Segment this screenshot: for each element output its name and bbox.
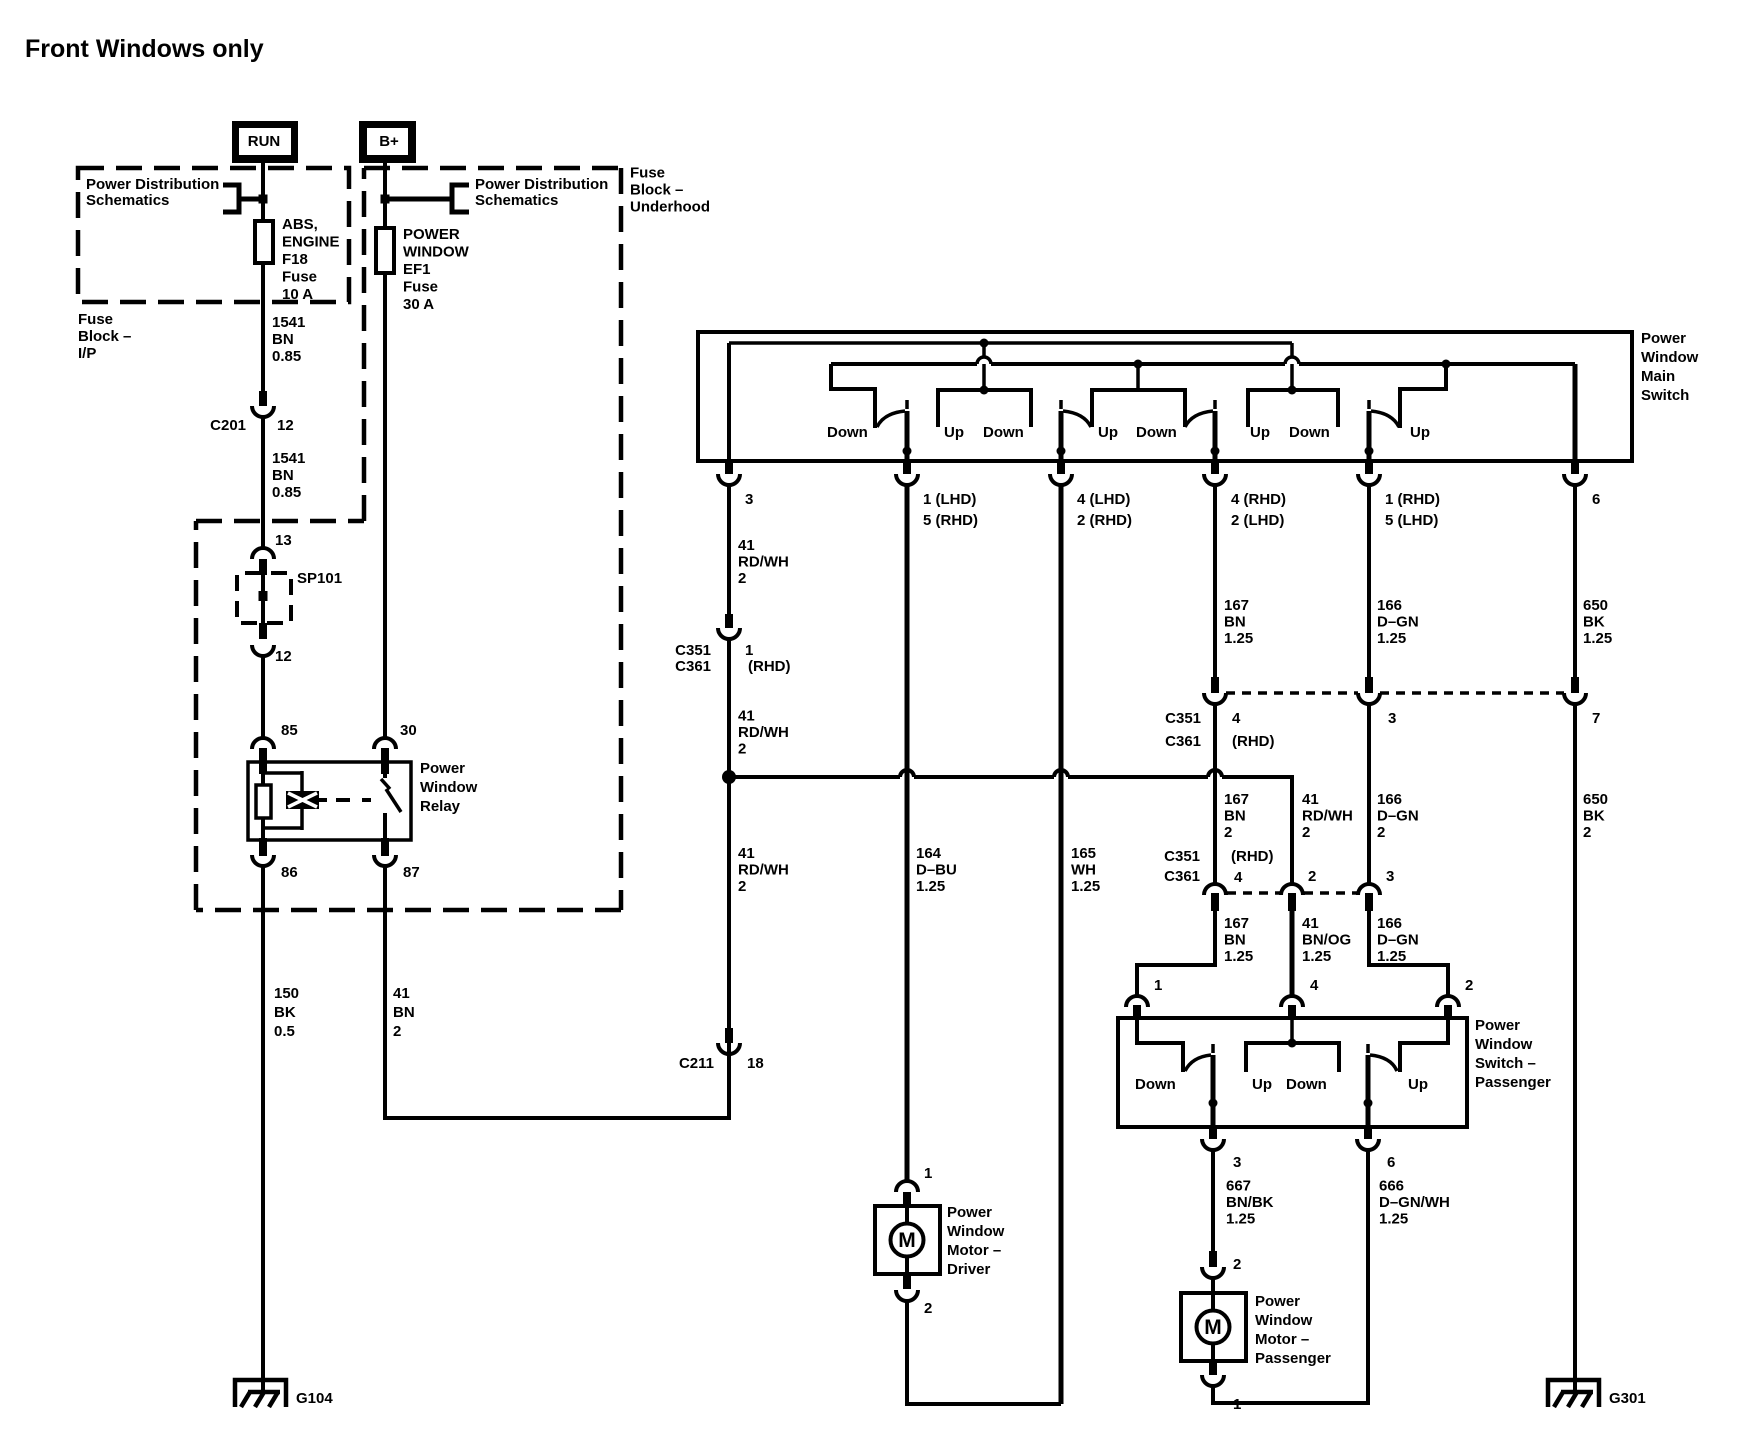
relay coil resistor element <box>261 762 265 785</box>
svg-text:Power: Power <box>420 760 465 777</box>
svg-text:Power Distribution: Power Distribution <box>86 176 219 193</box>
svg-text:164: 164 <box>916 845 942 862</box>
svg-text:2: 2 <box>1233 1256 1241 1273</box>
svg-text:Switch: Switch <box>1641 387 1689 404</box>
svg-text:0.5: 0.5 <box>274 1023 295 1040</box>
svg-text:POWER: POWER <box>403 226 460 243</box>
svg-text:Driver: Driver <box>947 1261 991 1278</box>
svg-text:2: 2 <box>738 878 746 895</box>
svg-text:1.25: 1.25 <box>1377 630 1406 647</box>
relay coil branch wires <box>263 771 302 775</box>
svg-text:1.25: 1.25 <box>1379 1211 1408 1228</box>
wire B+ feed <box>383 155 387 228</box>
svg-text:2: 2 <box>1224 824 1232 841</box>
svg-text:41: 41 <box>1302 915 1319 932</box>
connector C201 pin 12 <box>259 391 267 406</box>
svg-text:BK: BK <box>1583 614 1605 631</box>
svg-text:667: 667 <box>1226 1178 1251 1195</box>
svg-text:BN: BN <box>1224 614 1246 631</box>
switch sw4 wiper arm <box>1367 400 1371 409</box>
svg-text:0.85: 0.85 <box>272 348 301 365</box>
svg-text:SP101: SP101 <box>297 570 342 587</box>
svg-text:BN: BN <box>272 331 294 348</box>
svg-text:41: 41 <box>1302 791 1319 808</box>
svg-text:2: 2 <box>393 1023 401 1040</box>
svg-text:Motor –: Motor – <box>1255 1331 1309 1348</box>
node junction on RUN wire <box>259 195 268 204</box>
svg-text:Up: Up <box>1252 1076 1272 1093</box>
svg-text:4 (LHD): 4 (LHD) <box>1077 491 1130 508</box>
svg-text:Up: Up <box>944 424 964 441</box>
node trunk junction <box>722 770 736 784</box>
svg-text:RUN: RUN <box>248 133 281 150</box>
svg-text:BN: BN <box>272 467 294 484</box>
svg-text:650: 650 <box>1583 597 1608 614</box>
svg-text:D–GN/WH: D–GN/WH <box>1379 1194 1450 1211</box>
svg-text:Down: Down <box>1289 424 1330 441</box>
svg-text:WH: WH <box>1071 862 1096 879</box>
svg-text:12: 12 <box>277 417 294 434</box>
wire sw2 pivot riser <box>1059 411 1064 461</box>
node junction on B+ wire <box>381 195 390 204</box>
wire 41 RD/WH terminal 3 down <box>727 485 731 614</box>
svg-text:Down: Down <box>827 424 868 441</box>
wire main switch bus A <box>729 341 1292 345</box>
svg-text:Window: Window <box>947 1223 1005 1240</box>
wire 166 D-GN mid <box>1367 704 1371 884</box>
svg-text:Fuse: Fuse <box>282 269 317 286</box>
wire driver motor return <box>907 1301 1061 1404</box>
svg-text:6: 6 <box>1592 491 1600 508</box>
fuse block Underhood outline <box>196 168 621 910</box>
wire bracket to RUN wire <box>239 197 263 202</box>
connector main switch terminal x=1369 <box>1365 461 1373 474</box>
svg-text:Relay: Relay <box>420 798 461 815</box>
svg-text:BK: BK <box>274 1004 296 1021</box>
wire jog to C211 <box>383 1116 729 1120</box>
svg-text:(RHD): (RHD) <box>748 658 791 675</box>
svg-text:1: 1 <box>1233 1396 1241 1413</box>
svg-text:D–GN: D–GN <box>1377 614 1419 631</box>
svg-text:Window: Window <box>1641 349 1699 366</box>
svg-text:Power: Power <box>1641 330 1686 347</box>
wire 650 BK to G301 <box>1573 1380 1577 1392</box>
wire 650 BK lower <box>1573 704 1577 1381</box>
wire sw1 down contact feed <box>831 364 875 428</box>
connector relay pin 87 <box>381 838 389 856</box>
wire sw3 pivot riser <box>1213 411 1218 461</box>
svg-text:C211: C211 <box>679 1055 714 1072</box>
svg-text:Switch –: Switch – <box>1475 1055 1536 1072</box>
off-page bracket (right) <box>452 185 469 212</box>
svg-text:1541: 1541 <box>272 314 305 331</box>
switch Power Window Switch Passenger box <box>1118 1018 1467 1127</box>
off-page bracket (left) <box>223 185 239 212</box>
svg-text:Schematics: Schematics <box>86 192 169 209</box>
svg-text:12: 12 <box>275 648 292 665</box>
svg-text:C361: C361 <box>1164 868 1200 885</box>
connector driver motor pin 2 <box>903 1274 911 1289</box>
node bus B junctions <box>1134 360 1143 369</box>
svg-text:D–GN: D–GN <box>1377 808 1419 825</box>
connector terminal 12 <box>252 645 274 656</box>
svg-text:1.25: 1.25 <box>1224 630 1253 647</box>
svg-text:Underhood: Underhood <box>630 199 710 216</box>
svg-text:166: 166 <box>1377 915 1402 932</box>
svg-text:166: 166 <box>1377 597 1402 614</box>
svg-text:Fuse: Fuse <box>630 165 665 182</box>
svg-text:1: 1 <box>1154 977 1162 994</box>
relay Power Window Relay box <box>248 762 411 840</box>
svg-text:C351: C351 <box>1165 710 1201 727</box>
svg-text:Up: Up <box>1408 1076 1428 1093</box>
wire 150 BK to G104 <box>261 866 265 1392</box>
svg-text:C201: C201 <box>210 417 246 434</box>
wire bus A end feed to bracket3 <box>1290 343 1294 358</box>
svg-text:4: 4 <box>1310 977 1319 994</box>
wire C211 up to junction <box>727 789 731 1028</box>
svg-text:RD/WH: RD/WH <box>738 862 789 879</box>
svg-text:1.25: 1.25 <box>1583 630 1612 647</box>
wire sw4 up contact feed <box>1400 364 1446 428</box>
svg-text:C351: C351 <box>1164 848 1200 865</box>
connector passenger motor pin 1 <box>1209 1361 1217 1375</box>
svg-text:D–BU: D–BU <box>916 862 957 879</box>
switch sw1 wiper arm <box>877 411 905 427</box>
ground G301 <box>1548 1380 1599 1407</box>
wire dashed connector link row2 <box>1227 891 1280 895</box>
connector passenger motor pin 2 <box>1209 1251 1217 1267</box>
svg-text:166: 166 <box>1377 791 1402 808</box>
svg-text:150: 150 <box>274 985 299 1002</box>
svg-text:Window: Window <box>1475 1036 1533 1053</box>
svg-text:Block –: Block – <box>78 328 131 345</box>
switch sw3 wiper arm <box>1185 411 1213 427</box>
switch psw1 wiper arm <box>1185 1055 1211 1071</box>
wire bracket to B+ wire <box>385 197 452 202</box>
wire 666 D-GN/WH <box>1213 1150 1368 1403</box>
svg-text:1.25: 1.25 <box>1302 948 1331 965</box>
node bus A junction to first bracket <box>980 339 989 348</box>
wire 167 BN mid <box>1213 704 1217 884</box>
svg-text:Motor –: Motor – <box>947 1242 1001 1259</box>
svg-text:30 A: 30 A <box>403 296 434 313</box>
relay contact arm <box>383 762 387 778</box>
svg-text:2: 2 <box>738 570 746 587</box>
wire bracket2 common <box>1136 364 1140 390</box>
wire bracket3 common <box>1248 390 1338 427</box>
wire psw1 pivot riser <box>1211 1055 1216 1127</box>
svg-text:BN/OG: BN/OG <box>1302 932 1351 949</box>
wire EF1 to relay 30 <box>383 273 387 739</box>
svg-text:1: 1 <box>924 1165 932 1182</box>
wire 167 BN upper <box>1213 485 1217 678</box>
svg-text:Down: Down <box>1286 1076 1327 1093</box>
svg-text:Schematics: Schematics <box>475 192 558 209</box>
connector main switch terminal x=1215 <box>1211 461 1219 474</box>
wire sw4 pivot riser <box>1367 411 1372 461</box>
connector C211 pin 18 <box>725 1028 733 1043</box>
svg-text:167: 167 <box>1224 597 1249 614</box>
connector passenger switch pin 3 <box>1209 1127 1217 1139</box>
wire terminal 3 branch below trunk <box>727 777 731 1028</box>
wire C201 to terminal 13 <box>261 417 265 548</box>
svg-text:ENGINE: ENGINE <box>282 234 340 251</box>
wire sw1 pivot riser <box>905 411 910 461</box>
wire RUN feed <box>261 155 265 221</box>
svg-text:M: M <box>1204 1316 1222 1339</box>
svg-text:1.25: 1.25 <box>916 878 945 895</box>
wire 12 to relay 85 <box>261 656 265 739</box>
wire trunk corner down to row2 <box>1290 775 1294 884</box>
svg-text:Up: Up <box>1250 424 1270 441</box>
svg-text:167: 167 <box>1224 791 1249 808</box>
svg-text:Front Windows only: Front Windows only <box>25 35 264 63</box>
svg-text:BN: BN <box>393 1004 415 1021</box>
svg-text:D–GN: D–GN <box>1377 932 1419 949</box>
svg-text:2: 2 <box>1583 824 1591 841</box>
svg-text:RD/WH: RD/WH <box>738 724 789 741</box>
svg-text:1.25: 1.25 <box>1071 878 1100 895</box>
svg-text:41: 41 <box>738 537 755 554</box>
svg-text:BN: BN <box>1224 808 1246 825</box>
svg-text:2 (LHD): 2 (LHD) <box>1231 512 1284 529</box>
connector passenger switch pin 6 <box>1364 1127 1372 1139</box>
svg-text:13: 13 <box>275 532 292 549</box>
svg-text:2: 2 <box>738 741 746 758</box>
connector main switch terminal x=1061 <box>1057 461 1065 474</box>
svg-text:Down: Down <box>1135 1076 1176 1093</box>
svg-text:RD/WH: RD/WH <box>1302 808 1353 825</box>
connector row C351/C361 (lower) <box>1204 884 1226 895</box>
node B+ (battery feed) <box>359 121 416 163</box>
svg-text:Fuse: Fuse <box>403 279 438 296</box>
svg-text:1 (LHD): 1 (LHD) <box>923 491 976 508</box>
svg-text:C361: C361 <box>1165 733 1201 750</box>
wire 167 BN lower <box>1213 911 1217 967</box>
wire F18 to C201 <box>261 263 265 391</box>
wire crossover hop at bracket1 feed <box>977 357 991 364</box>
svg-text:1: 1 <box>745 642 753 659</box>
svg-text:666: 666 <box>1379 1178 1404 1195</box>
relay coil box symbol <box>286 791 319 809</box>
svg-text:Window: Window <box>1255 1312 1313 1329</box>
svg-text:3: 3 <box>1386 868 1394 885</box>
svg-text:5 (LHD): 5 (LHD) <box>1385 512 1438 529</box>
svg-text:Main: Main <box>1641 368 1675 385</box>
svg-text:BK: BK <box>1583 808 1605 825</box>
wire terminal 6 riser <box>1573 364 1578 461</box>
motor Power Window Motor Passenger <box>1181 1293 1246 1361</box>
svg-text:Down: Down <box>983 424 1024 441</box>
svg-text:(RHD): (RHD) <box>1232 733 1275 750</box>
fuse block I/P outline <box>78 168 349 302</box>
svg-text:86: 86 <box>281 864 298 881</box>
svg-text:165: 165 <box>1071 845 1096 862</box>
svg-text:G301: G301 <box>1609 1390 1646 1407</box>
svg-text:3: 3 <box>1388 710 1396 727</box>
svg-text:RD/WH: RD/WH <box>738 554 789 571</box>
svg-text:1 (RHD): 1 (RHD) <box>1385 491 1440 508</box>
svg-text:10 A: 10 A <box>282 286 313 303</box>
svg-text:Power: Power <box>1255 1293 1300 1310</box>
svg-text:85: 85 <box>281 722 298 739</box>
svg-text:1.25: 1.25 <box>1224 948 1253 965</box>
wire dashed connector link row1 <box>1226 691 1358 695</box>
svg-text:EF1: EF1 <box>403 261 431 278</box>
svg-text:I/P: I/P <box>78 345 96 362</box>
svg-text:4: 4 <box>1234 869 1243 886</box>
svg-text:BN: BN <box>1224 932 1246 949</box>
svg-text:2 (RHD): 2 (RHD) <box>1077 512 1132 529</box>
svg-text:2: 2 <box>1377 824 1385 841</box>
connector main switch terminal x=907 <box>903 461 911 474</box>
svg-text:Passenger: Passenger <box>1255 1350 1331 1367</box>
svg-text:3: 3 <box>1233 1154 1241 1171</box>
svg-text:Up: Up <box>1410 424 1430 441</box>
svg-text:650: 650 <box>1583 791 1608 808</box>
svg-text:1541: 1541 <box>272 450 305 467</box>
splice SP101 <box>237 573 291 623</box>
svg-text:6: 6 <box>1387 1154 1395 1171</box>
svg-text:G104: G104 <box>296 1390 333 1407</box>
wire 164 D-BU <box>905 485 910 1180</box>
svg-text:0.85: 0.85 <box>272 484 301 501</box>
svg-text:41: 41 <box>738 845 755 862</box>
wire 41 BN relay 87 down <box>383 866 387 1120</box>
svg-text:B+: B+ <box>379 133 399 150</box>
connector row C351/C361 (upper) <box>1211 677 1219 693</box>
svg-text:ABS,: ABS, <box>282 216 318 233</box>
switch sw2 wiper arm <box>1059 400 1063 409</box>
switch psw2 wiper arm <box>1366 1044 1370 1053</box>
svg-text:Window: Window <box>420 779 478 796</box>
connector main switch terminal x=729 <box>725 461 733 474</box>
svg-text:BN/BK: BN/BK <box>1226 1194 1274 1211</box>
svg-text:2: 2 <box>1465 977 1473 994</box>
connector main switch terminal x=1575 <box>1571 461 1579 474</box>
fuse EF1 POWER WINDOW 30A <box>376 228 394 273</box>
svg-text:41: 41 <box>393 985 410 1002</box>
svg-text:7: 7 <box>1592 710 1600 727</box>
wire bracket1 common <box>938 390 1031 427</box>
wire passenger bracket common <box>1290 1018 1294 1043</box>
wire 165 WH <box>1059 485 1064 1404</box>
svg-text:1.25: 1.25 <box>1226 1211 1255 1228</box>
svg-text:2: 2 <box>1302 824 1310 841</box>
wire 41 RD/WH trunk <box>729 775 900 779</box>
svg-text:Power: Power <box>1475 1017 1520 1034</box>
connector driver motor pin 1 <box>905 1180 910 1182</box>
svg-text:30: 30 <box>400 722 417 739</box>
switch Power Window Main Switch box <box>698 332 1632 461</box>
svg-text:Passenger: Passenger <box>1475 1074 1551 1091</box>
svg-text:4: 4 <box>1232 710 1241 727</box>
wire 650 BK upper <box>1573 485 1577 678</box>
svg-text:Down: Down <box>1136 424 1177 441</box>
svg-text:87: 87 <box>403 864 420 881</box>
svg-text:4 (RHD): 4 (RHD) <box>1231 491 1286 508</box>
svg-text:Power Distribution: Power Distribution <box>475 176 608 193</box>
svg-text:F18: F18 <box>282 251 308 268</box>
connector C351/C361 pin 1 <box>725 614 733 628</box>
wire 166 D-GN lower <box>1367 911 1371 967</box>
svg-text:5 (RHD): 5 (RHD) <box>923 512 978 529</box>
wire psw2 pivot riser <box>1366 1055 1371 1127</box>
svg-text:WINDOW: WINDOW <box>403 244 470 261</box>
svg-text:Up: Up <box>1098 424 1118 441</box>
svg-text:1.25: 1.25 <box>1377 948 1406 965</box>
svg-text:2: 2 <box>924 1300 932 1317</box>
motor Power Window Motor Driver <box>875 1206 940 1274</box>
svg-text:C351: C351 <box>675 642 711 659</box>
ground G104 <box>235 1380 286 1407</box>
svg-text:Block –: Block – <box>630 182 683 199</box>
wire 166 D-GN upper <box>1367 485 1371 678</box>
svg-text:Fuse: Fuse <box>78 311 113 328</box>
wire main switch bus B <box>831 362 977 366</box>
wire C351 to trunk junction <box>727 639 731 777</box>
svg-text:41: 41 <box>738 708 755 725</box>
svg-text:18: 18 <box>747 1055 764 1072</box>
connector relay pin 86 <box>259 838 267 856</box>
wire psw1 down contact feed <box>1137 1018 1183 1072</box>
fuse F18 ABS ENGINE 10A <box>255 221 273 263</box>
wire 667 BN/BK <box>1211 1150 1215 1251</box>
svg-text:M: M <box>898 1229 916 1252</box>
svg-text:C361: C361 <box>675 658 711 675</box>
svg-text:167: 167 <box>1224 915 1249 932</box>
wire coil to contact (dashed mechanical link) <box>319 798 327 802</box>
node RUN (ignition feed) <box>232 121 298 163</box>
svg-text:Power: Power <box>947 1204 992 1221</box>
svg-text:2: 2 <box>1308 868 1316 885</box>
wire psw2 up contact feed <box>1400 1018 1448 1072</box>
svg-text:(RHD): (RHD) <box>1231 848 1274 865</box>
wire terminal 3 riser <box>727 343 731 461</box>
wire 41 BN/OG <box>1290 911 1295 996</box>
svg-text:3: 3 <box>745 491 753 508</box>
